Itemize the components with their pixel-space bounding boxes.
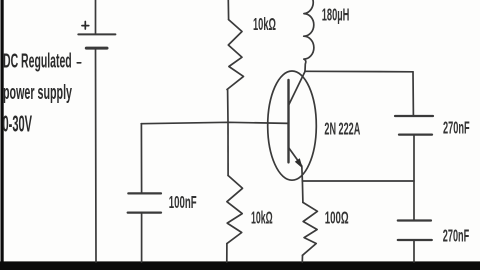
wire base node to R2 (227, 122, 229, 175)
left black bar (1, 0, 4, 262)
label battery plus (82, 22, 89, 30)
capacitor C1 100nF top plate (128, 192, 161, 194)
capacitor C2 270nF bottom plate (399, 134, 432, 136)
capacitor C3 270nF top plate (398, 219, 431, 221)
svg-text:270nF: 270nF (443, 226, 470, 246)
battery B1 plus plate (78, 33, 115, 35)
wire right bottom vertical (413, 240, 415, 262)
resistor R1 10k top (227, 20, 244, 90)
svg-text:power supply: power supply (3, 82, 72, 104)
transistor Q1 collector lead (289, 72, 305, 105)
svg-text:DC Regulated: DC Regulated (3, 51, 72, 73)
wire R1 top feed (227, 0, 229, 20)
transistor Q1 base bar (287, 80, 289, 162)
label battery minus (77, 62, 81, 64)
wire emitter node to right (302, 180, 414, 182)
wire R1 bottom to base node (227, 90, 229, 123)
wire C1 bottom (141, 213, 143, 262)
wire battery bottom (95, 49, 98, 263)
wire R2 bottom (226, 244, 228, 262)
svg-text:100Ω: 100Ω (325, 207, 349, 227)
battery B1 minus plate (86, 47, 107, 50)
transistor Q1 emitter arrowhead (295, 158, 303, 168)
capacitor C1 100nF bottom plate (128, 212, 161, 214)
bottom black bar (0, 261, 480, 270)
wire R3 bottom (301, 255, 303, 262)
wire emitter node down (301, 181, 304, 202)
svg-text:270nF: 270nF (443, 118, 470, 138)
wire collector node to right (305, 70, 413, 73)
svg-text:100nF: 100nF (169, 192, 197, 212)
wire right top vertical (412, 72, 414, 116)
wire C1 top (140, 124, 142, 194)
svg-text:10kΩ: 10kΩ (253, 14, 276, 34)
transistor Q1 body circle (268, 71, 317, 180)
svg-text:180µH: 180µH (322, 5, 350, 25)
wire battery top (95, 0, 97, 34)
svg-text:10kΩ: 10kΩ (251, 207, 273, 227)
transistor Q1 emitter lead (289, 148, 303, 181)
wire base node horizontal (141, 122, 288, 123)
label DC Regulated power supply 0-30V (3, 51, 73, 137)
resistor R3 100 ohm (303, 202, 318, 255)
resistor R2 10k bottom (227, 176, 243, 244)
svg-text:2N 222A: 2N 222A (324, 119, 360, 139)
inductor L1 180uH (304, 0, 314, 71)
capacitor C2 270nF top plate (395, 115, 433, 117)
capacitor C3 270nF bottom plate (398, 239, 432, 241)
svg-text:0-30V: 0-30V (3, 111, 33, 137)
wire right middle vertical (413, 135, 415, 221)
